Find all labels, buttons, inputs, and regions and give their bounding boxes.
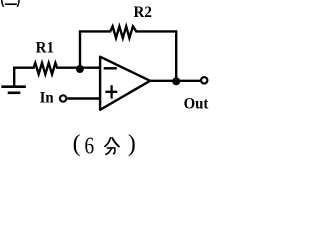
svg-text:Out: Out	[184, 95, 210, 113]
svg-text:R2: R2	[134, 4, 153, 22]
svg-text:R1: R1	[36, 39, 54, 57]
svg-text:): )	[128, 131, 136, 157]
svg-text:In: In	[40, 89, 54, 107]
svg-text:(: (	[73, 131, 81, 157]
svg-text:6: 6	[85, 132, 95, 159]
